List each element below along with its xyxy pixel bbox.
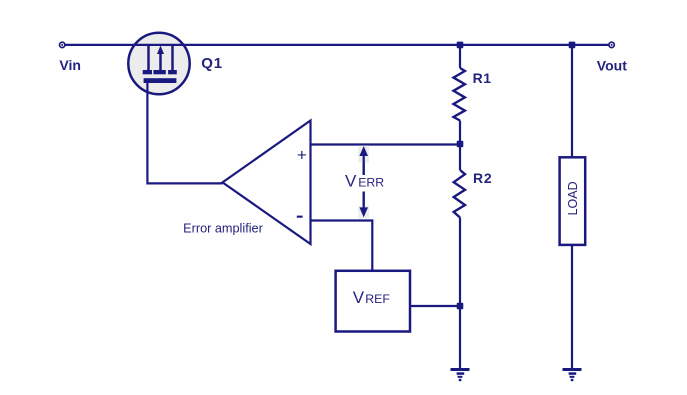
svg-text:REF: REF xyxy=(365,292,390,306)
svg-text:V: V xyxy=(353,288,365,307)
svg-text:V: V xyxy=(345,172,357,191)
svg-text:+: + xyxy=(297,145,307,164)
svg-text:LOAD: LOAD xyxy=(566,181,580,215)
svg-text:Vout: Vout xyxy=(597,57,627,73)
svg-text:R2: R2 xyxy=(473,170,493,186)
svg-text:ERR: ERR xyxy=(358,176,384,190)
svg-text:R1: R1 xyxy=(473,70,492,86)
svg-text:Vin: Vin xyxy=(59,57,81,73)
svg-text:Q1: Q1 xyxy=(201,55,223,72)
svg-text:Error amplifier: Error amplifier xyxy=(183,221,263,235)
